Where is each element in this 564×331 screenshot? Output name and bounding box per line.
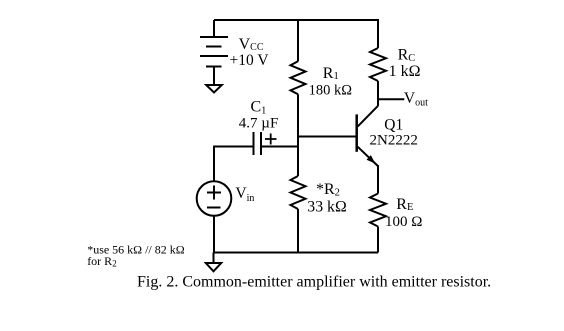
svg-text:Fig. 2. Common-emitter amplifi: Fig. 2. Common-emitter amplifier with em… [137,273,491,290]
wire Vout stub [377,98,404,100]
wire emitter to RE [377,165,379,194]
ground under battery triangle [206,85,222,93]
ground under battery stem [213,67,215,86]
wire C1 right plate to divider node [262,146,299,148]
wire top rail Vcc from battery branch to Rc branch [214,20,378,48]
wire bottom ground rail [214,252,379,254]
wire Vin bottom to ground rail [213,216,215,253]
capacitor C1 right plate [260,132,262,155]
resistor Rc zigzag [370,48,386,81]
capacitor C1 left plate [253,132,255,155]
resistor R1 zigzag [291,61,306,94]
transistor Q1 collector diagonal [358,106,378,127]
svg-text:C1: C1 [251,98,267,116]
transistor Q1 emitter diagonal [358,147,378,166]
svg-text:Vin: Vin [235,185,254,204]
battery V1 plate long top [200,36,228,38]
wire RE bottom to ground rail [377,227,379,253]
svg-text:*R2: *R2 [316,181,340,199]
svg-text:180 kΩ: 180 kΩ [309,83,353,99]
ground under battery crossbar [206,66,222,68]
svg-text:R1: R1 [323,65,339,82]
wire battery stub from top rail [213,20,215,37]
resistor RE zigzag [370,194,386,227]
svg-text:RE: RE [396,196,413,213]
svg-text:33 kΩ: 33 kΩ [307,198,346,215]
capacitor C1 plus mark [265,134,277,145]
ground bottom stem [213,253,215,264]
wire R1 branch from top rail [297,20,299,61]
svg-text:4.7 µF: 4.7 µF [239,115,278,131]
svg-text:100 Ω: 100 Ω [385,214,422,230]
wire R1 bottom to R2 top through base/C1 junctions [297,94,299,176]
battery V1 plate short middle [206,46,222,48]
source Vin minus sign [207,207,221,209]
resistor R2 zigzag [291,176,306,209]
svg-text:Q1: Q1 [384,116,403,133]
svg-text:Vout: Vout [404,90,428,109]
wire R2 bottom to ground rail [297,209,299,253]
transistor Q1 base bar [355,114,358,151]
wire Rc bottom to collector corner [377,81,379,106]
svg-text:+10 V: +10 V [230,52,270,69]
battery V1 plate long bottom [200,55,228,57]
wire C1 left plate to Vin top [214,147,253,182]
transistor Q1 emitter arrowhead [367,155,376,163]
source Vin circle [197,181,232,216]
svg-text:VCC: VCC [239,36,264,53]
svg-text:RC: RC [398,47,416,64]
ground bottom triangle [206,263,221,271]
source Vin plus sign [207,186,221,200]
svg-text:2N2222: 2N2222 [370,133,418,149]
wire base from divider node to Q1 base [298,136,356,138]
svg-text:1 kΩ: 1 kΩ [389,63,421,80]
